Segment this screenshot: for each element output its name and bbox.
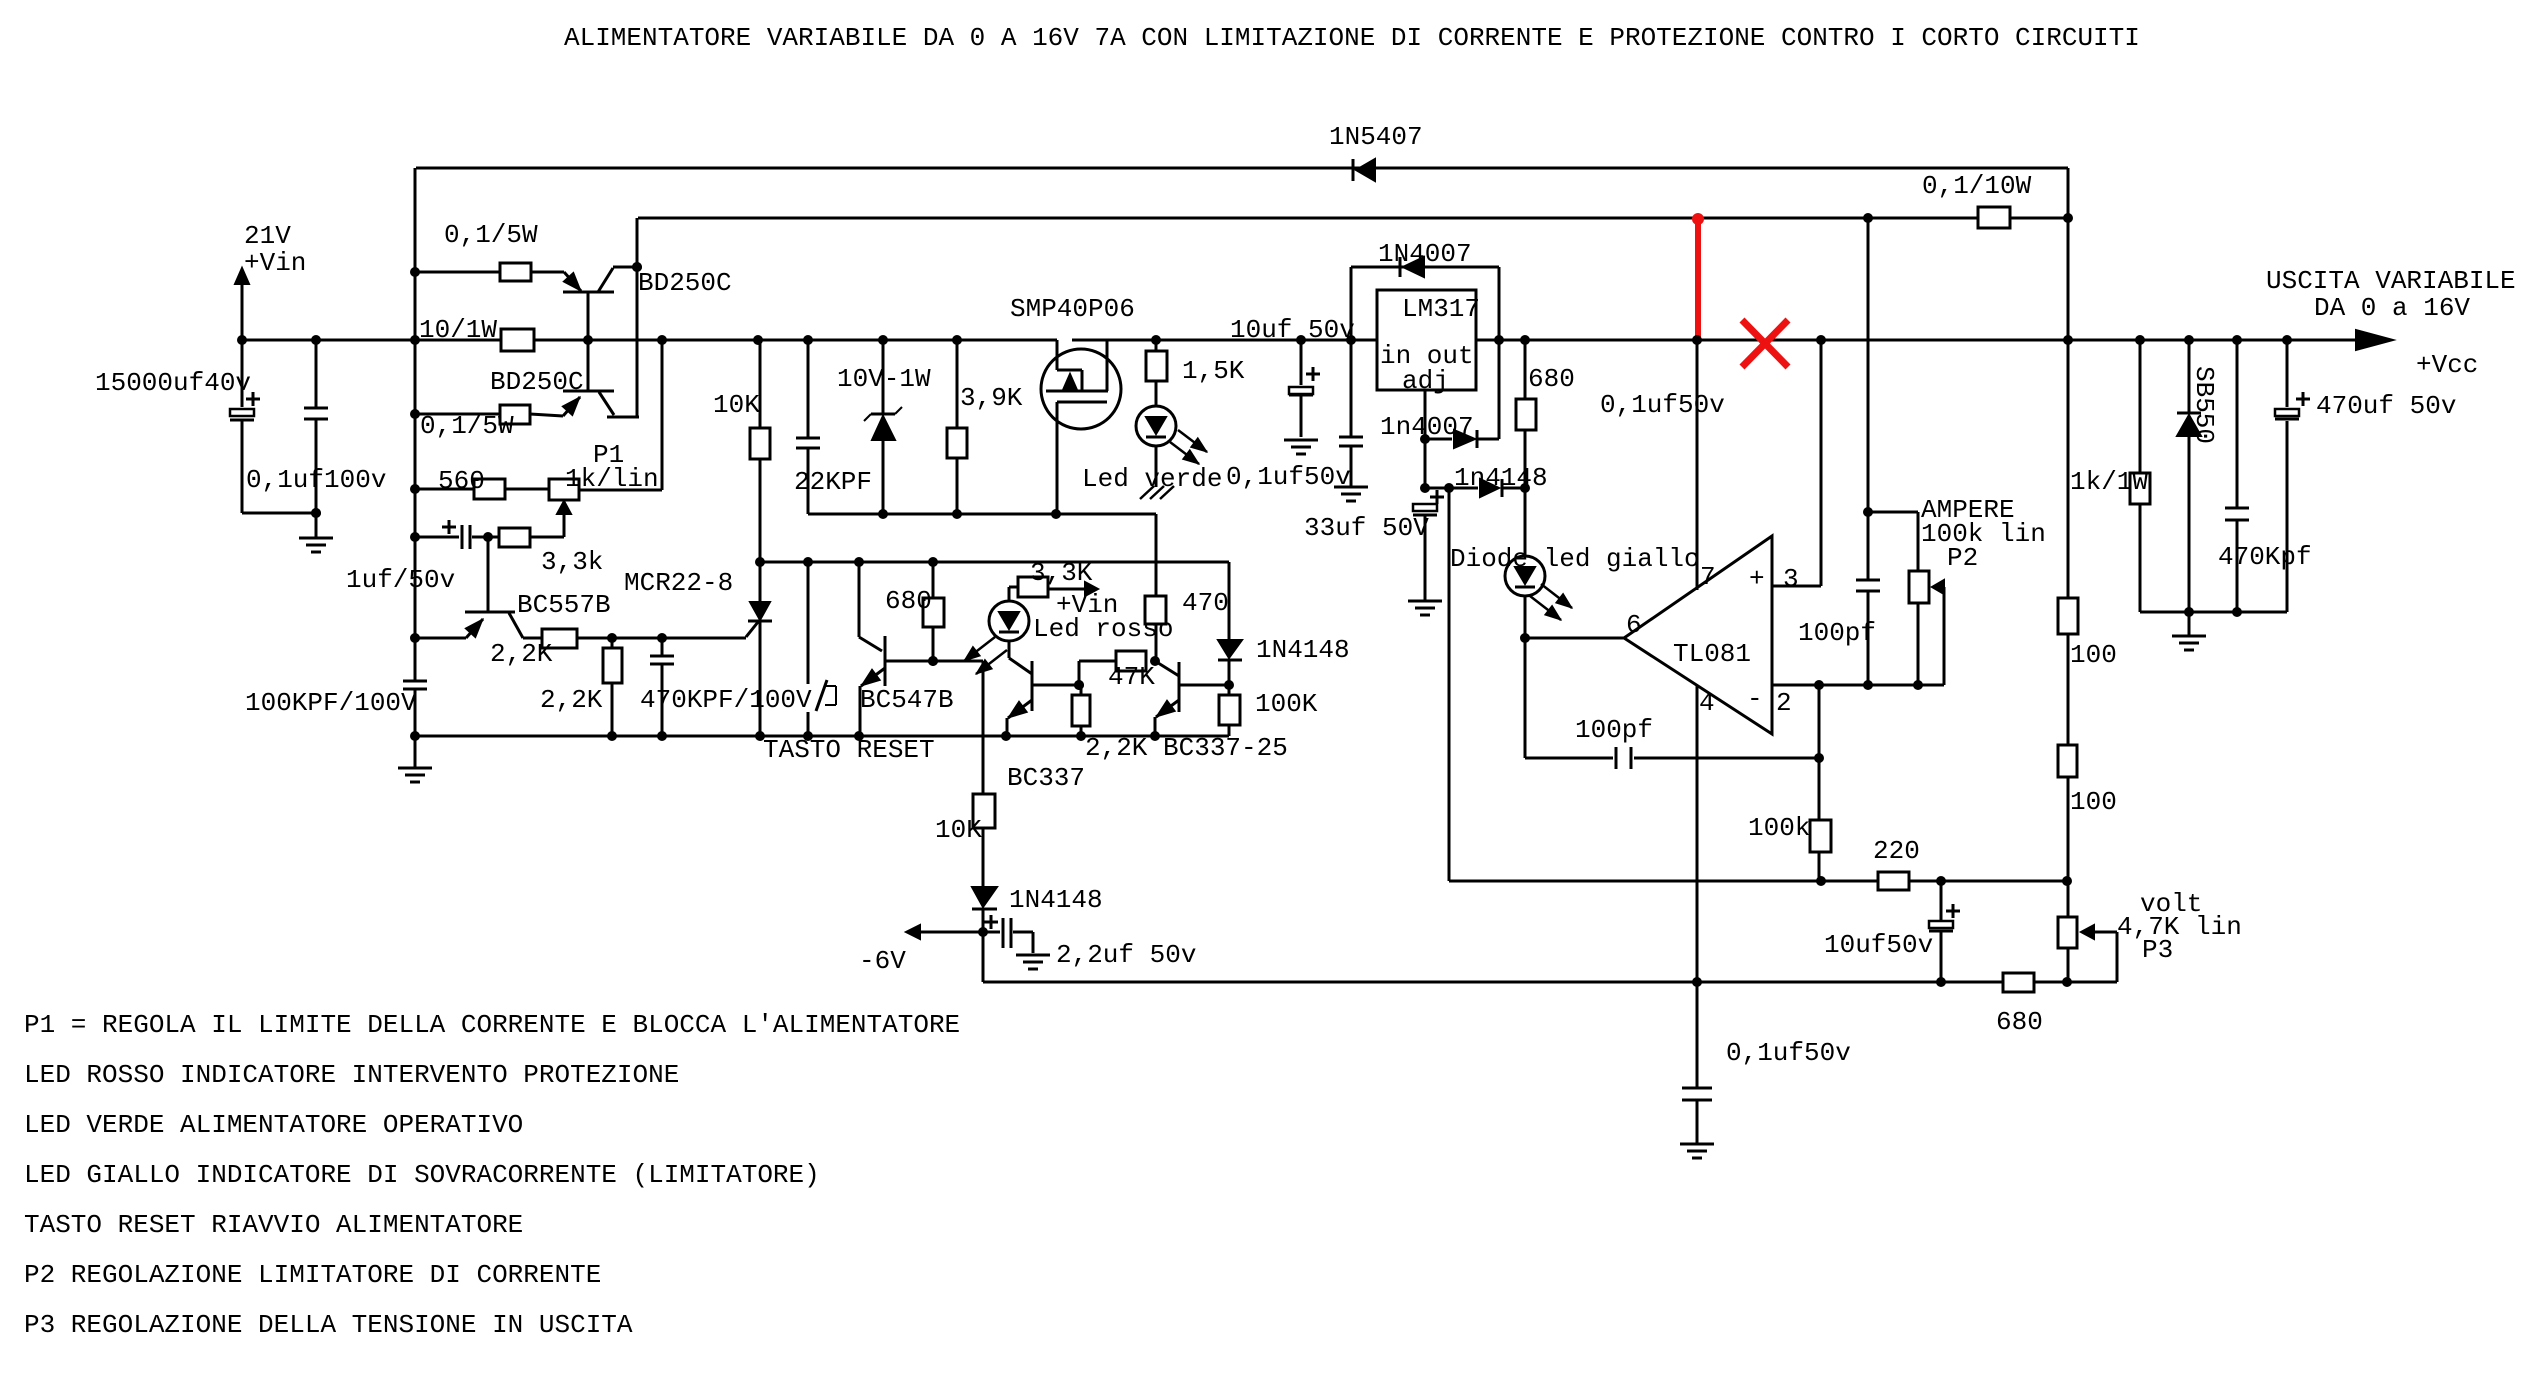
- node collector top: [632, 262, 642, 272]
- svg-text:0,1uf50v: 0,1uf50v: [1600, 390, 1725, 420]
- thyristor MCR22-8: [748, 602, 772, 736]
- wire collector 2,2K row: [523, 622, 758, 638]
- wire drain line: [808, 514, 1156, 562]
- wire collector bus x637: [636, 218, 639, 417]
- diode 1N4148 base: [1218, 640, 1242, 660]
- wire 0,1uf100v branch: [315, 340, 318, 537]
- wire 470uf branch: [2286, 340, 2289, 612]
- label 47K: [1108, 662, 1155, 692]
- resistor 220: [1878, 872, 1909, 890]
- output arrow: [2356, 330, 2393, 350]
- diode 1n4007 adj: [1425, 430, 1499, 448]
- led rosso emission arrows: [964, 637, 1007, 674]
- svg-text:100K: 100K: [1255, 689, 1318, 719]
- label 1N4007: [1378, 239, 1472, 269]
- resistor 0,1/5W top: [500, 263, 531, 281]
- label 100KPF/100V: [245, 688, 417, 718]
- wire 560 row: [415, 340, 662, 490]
- label 2,2K h: [490, 639, 553, 669]
- svg-text:680: 680: [885, 586, 932, 616]
- wire 470 branch: [1155, 562, 1158, 661]
- capacitor 22KPF: [796, 438, 820, 448]
- ground 10uf: [1284, 440, 1318, 454]
- svg-text:1N4148: 1N4148: [1256, 635, 1350, 665]
- svg-text:100k lin: 100k lin: [1921, 519, 2046, 549]
- wire 100pf2 line: [1525, 685, 1819, 758]
- svg-text:SB550: SB550: [2189, 366, 2219, 444]
- svg-text:1k/lin: 1k/lin: [565, 464, 659, 494]
- svg-text:100k: 100k: [1748, 813, 1810, 843]
- svg-text:Led verde: Led verde: [1082, 464, 1222, 494]
- svg-text:P2: P2: [1947, 543, 1978, 573]
- svg-text:MCR22-8: MCR22-8: [624, 568, 733, 598]
- diode SB550: [2177, 413, 2201, 436]
- svg-text:470: 470: [1182, 588, 1229, 618]
- svg-text:+Vin: +Vin: [244, 248, 306, 278]
- resistor 47K: [1116, 651, 1146, 671]
- capacitor 470KPF/100V: [650, 656, 674, 664]
- wire main +V bus right: [1072, 339, 2357, 342]
- label +Vcc: [2416, 350, 2478, 380]
- svg-text:LED ROSSO INDICATORE INTERVENT: LED ROSSO INDICATORE INTERVENTO PROTEZIO…: [24, 1060, 679, 1090]
- resistor 560: [474, 479, 505, 499]
- resistor 680 2: [1516, 399, 1536, 430]
- svg-text:1N4007: 1N4007: [1378, 239, 1472, 269]
- wire gate rail 562: [760, 561, 1229, 564]
- legend line 3: [24, 1110, 523, 1140]
- transistor Q1 BD250C upper: [563, 267, 637, 340]
- wire top rail 1: [416, 167, 2068, 170]
- wire 10uf50v branch: [1940, 881, 1943, 982]
- wire x1449 feedback: [1449, 488, 2067, 881]
- label Led verde: [1082, 464, 1222, 494]
- label 470: [1182, 588, 1229, 618]
- label 470uf 50v: [2316, 391, 2456, 421]
- label 2,2K BC337-25: [1085, 733, 1288, 763]
- svg-text:6: 6: [1626, 610, 1642, 640]
- label 2,2K v: [540, 685, 603, 715]
- node 100pf2: [1814, 753, 1824, 763]
- potentiometer P1 1k/lin: [549, 479, 579, 537]
- label 10K 2: [935, 815, 982, 845]
- wire x983 down: [982, 661, 985, 982]
- label 0,1/10W: [1922, 171, 2032, 201]
- svg-text:470uf 50v: 470uf 50v: [2316, 391, 2456, 421]
- label 1k/lin: [565, 464, 659, 494]
- transistor Q2 BD250C lower: [562, 340, 639, 417]
- label BD250C lower: [490, 367, 584, 397]
- label 0,1uf100v: [246, 465, 386, 495]
- wire top rail 2: [638, 217, 2068, 220]
- label P2: [1947, 543, 1978, 573]
- label 21V: [244, 221, 291, 251]
- potentiometer P2 100k lin: [1909, 571, 1944, 685]
- wire 10K branch: [759, 340, 762, 602]
- node led giallo junctions: [1520, 483, 1530, 643]
- svg-text:DA 0 a 16V: DA 0 a 16V: [2314, 293, 2470, 323]
- ground main: [398, 736, 432, 782]
- svg-text:10K: 10K: [935, 815, 982, 845]
- svg-text:10uf 50v: 10uf 50v: [1230, 315, 1355, 345]
- svg-text:1N5407: 1N5407: [1329, 122, 1423, 152]
- resistor 0,1/10W: [1978, 207, 2010, 228]
- wire P2 top: [1868, 512, 1918, 571]
- resistor 10K 2: [973, 794, 995, 828]
- resistor 3,3K to Vin: [1018, 577, 1048, 597]
- label pin minus: [1747, 684, 1763, 714]
- svg-text:47K: 47K: [1108, 662, 1155, 692]
- ground left: [299, 538, 333, 552]
- label 1N4148 base: [1256, 635, 1350, 665]
- ground right: [2172, 612, 2206, 650]
- node 2,2K top: [607, 633, 617, 643]
- label 1N5407: [1329, 122, 1423, 152]
- title text: [564, 23, 2140, 53]
- label 100k: [1748, 813, 1810, 843]
- node +Vin arrow: [235, 268, 249, 340]
- label MCR22-8: [624, 568, 733, 598]
- wire ground rail: [415, 735, 1229, 738]
- label 680 3: [1996, 1007, 2043, 1037]
- ground led verde: [1140, 486, 1174, 499]
- node junction 3,3k: [483, 532, 493, 542]
- label TASTO RESET: [763, 735, 935, 765]
- label 10V-1W: [837, 364, 931, 394]
- svg-text:1k/1W: 1k/1W: [2070, 467, 2148, 497]
- junction dots on gate rail: [755, 557, 938, 567]
- label BC557B: [517, 590, 611, 620]
- svg-text:Diode led giallo: Diode led giallo: [1450, 544, 1700, 574]
- wire 100pf1 branch: [1867, 218, 1870, 685]
- svg-text:0,1/5W: 0,1/5W: [444, 220, 538, 250]
- capacitor 33uf 50V: [1408, 490, 1444, 615]
- label 470KPF/100V: [640, 685, 812, 715]
- label 100pf 1: [1798, 618, 1876, 648]
- svg-text:680: 680: [1528, 364, 1575, 394]
- resistor 100 b: [2058, 745, 2077, 777]
- svg-text:3,9K: 3,9K: [960, 383, 1023, 413]
- label BD250C upper: [638, 268, 732, 298]
- wire 100k branch: [1818, 758, 1821, 881]
- regulator U2 LM317: [1377, 290, 1476, 390]
- capacitor 100pf 2: [1616, 747, 1631, 769]
- capacitor 15000uf40v: [230, 392, 260, 420]
- resistor 10K: [750, 428, 770, 459]
- resistor 3,9K: [947, 428, 967, 458]
- svg-text:LED GIALLO INDICATORE DI SOVRA: LED GIALLO INDICATORE DI SOVRACORRENTE (…: [24, 1160, 820, 1190]
- wire 1uf row: [415, 536, 564, 539]
- svg-text:P1 = REGOLA IL LIMITE DELLA CO: P1 = REGOLA IL LIMITE DELLA CORRENTE E B…: [24, 1010, 960, 1040]
- label adj: [1402, 366, 1449, 396]
- node adj junctions: [1420, 434, 1454, 493]
- svg-text:3: 3: [1783, 564, 1799, 594]
- legend line 2: [24, 1060, 679, 1090]
- wire pin7 supply: [1696, 340, 1699, 590]
- node 470KPF top: [657, 633, 667, 643]
- resistor 3,3k: [499, 528, 530, 547]
- label 2,2uf 50v: [1056, 940, 1196, 970]
- svg-text:TL081: TL081: [1673, 639, 1751, 669]
- node collector BC547B: [928, 656, 938, 666]
- label 0,1uf50v LM317: [1226, 462, 1351, 492]
- capacitor 470uf 50v: [2275, 392, 2310, 419]
- label P1: [593, 440, 624, 470]
- label Diode led giallo: [1450, 544, 1700, 574]
- svg-text:USCITA VARIABILE: USCITA VARIABILE: [2266, 266, 2516, 296]
- node -6V junction: [978, 927, 988, 937]
- svg-text:100pf: 100pf: [1798, 618, 1876, 648]
- label in out: [1380, 341, 1474, 371]
- wire pin2 input: [1772, 684, 1944, 687]
- resistor 1k/1W: [2130, 473, 2150, 504]
- label 100 b: [2070, 787, 2117, 817]
- svg-text:4: 4: [1699, 688, 1715, 718]
- transistor Q3 BC557B: [415, 537, 523, 638]
- svg-text:10uf50v: 10uf50v: [1824, 930, 1933, 960]
- wire led anode: [1009, 586, 1018, 589]
- resistor 2,2K under base: [1072, 685, 1090, 736]
- resistor 2,2K horizontal: [542, 629, 577, 648]
- label pin7: [1700, 562, 1716, 592]
- junction dots on ground rail: [410, 731, 1160, 741]
- svg-text:33uf 50V: 33uf 50V: [1304, 513, 1429, 543]
- svg-text:LED VERDE ALIMENTATORE OPERATI: LED VERDE ALIMENTATORE OPERATIVO: [24, 1110, 523, 1140]
- svg-text:1uf/50v: 1uf/50v: [346, 565, 455, 595]
- label 100 a: [2070, 640, 2117, 670]
- label 470Kpf: [2218, 542, 2312, 572]
- label pin6: [1626, 610, 1642, 640]
- wire 2,2K vert: [611, 638, 614, 736]
- label 15000uf40v: [95, 368, 251, 398]
- capacitor 100pf 1: [1856, 580, 1880, 591]
- wire SB550 branch: [2188, 340, 2191, 612]
- legend line 5: [24, 1210, 523, 1240]
- wire 1,5K branch: [1155, 340, 1158, 487]
- svg-text:0,1uf100v: 0,1uf100v: [246, 465, 386, 495]
- capacitor 0,1uf50v LM317: [1334, 340, 1368, 501]
- red mark X: [1742, 320, 1788, 367]
- svg-text:470KPF/100V: 470KPF/100V: [640, 685, 812, 715]
- svg-text:0,1uf50v: 0,1uf50v: [1726, 1038, 1851, 1068]
- legend line 4: [24, 1160, 820, 1190]
- led verde emission arrows: [1170, 430, 1207, 464]
- legend line 6: [24, 1260, 601, 1290]
- svg-text:ALIMENTATORE VARIABILE DA 0 A: ALIMENTATORE VARIABILE DA 0 A 16V 7A CON…: [564, 23, 2140, 53]
- label 0,1/5W top: [444, 220, 538, 250]
- wire x2068 vertical: [2067, 168, 2070, 982]
- label BC337: [1007, 763, 1085, 793]
- led Diode led giallo: [1505, 556, 1545, 596]
- resistor 0,1/5W bottom: [500, 405, 530, 424]
- svg-text:TASTO RESET: TASTO RESET: [763, 735, 935, 765]
- label 680 2: [1528, 364, 1575, 394]
- label 560: [438, 466, 485, 496]
- led Led rosso: [989, 587, 1029, 658]
- wire 680 branch: [933, 562, 983, 661]
- label 3,3k: [541, 547, 603, 577]
- svg-text:22KPF: 22KPF: [794, 467, 872, 497]
- label 4,7K lin: [2117, 912, 2242, 942]
- svg-text:2,2K: 2,2K: [490, 639, 553, 669]
- label pin4: [1699, 688, 1715, 718]
- led giallo emission arrows: [1530, 584, 1572, 620]
- wire 22KPF branch: [807, 340, 810, 514]
- diode 1N5407: [1353, 159, 1375, 181]
- label 0,1uf50v bottom: [1726, 1038, 1851, 1068]
- switch TASTO RESET: [808, 562, 836, 736]
- label 100pf 2: [1575, 715, 1653, 745]
- label 100k lin: [1921, 519, 2046, 549]
- diode 1N4148 down: [972, 887, 997, 909]
- resistor 1,5K: [1146, 351, 1167, 381]
- svg-text:2,2uf 50v: 2,2uf 50v: [1056, 940, 1196, 970]
- svg-text:15000uf40v: 15000uf40v: [95, 368, 251, 398]
- svg-text:1N4148: 1N4148: [1009, 885, 1103, 915]
- label 1uf/50v: [346, 565, 455, 595]
- wire x415 vertical: [414, 168, 417, 736]
- label 1n4007: [1380, 412, 1474, 442]
- label 10K: [713, 390, 760, 420]
- svg-text:3,3k: 3,3k: [541, 547, 603, 577]
- wire -6V arrow: [906, 925, 983, 939]
- label 0,1/5W bottom: [420, 411, 514, 441]
- wire 470Kpf branch: [2236, 340, 2239, 612]
- label TL081: [1673, 639, 1751, 669]
- red mark vertical: [1692, 213, 1704, 341]
- label 22KPF: [794, 467, 872, 497]
- label 10/1W: [419, 315, 497, 345]
- svg-text:100KPF/100V: 100KPF/100V: [245, 688, 417, 718]
- wire 3,9K branch: [956, 340, 959, 514]
- node base BC337: [1074, 680, 1084, 690]
- capacitor 2,2uf 50v: [983, 915, 1050, 969]
- resistor 680 left: [923, 598, 944, 627]
- wire pin3 input: [1772, 340, 1821, 586]
- label P3: [2142, 935, 2173, 965]
- svg-text:0,1uf50v: 0,1uf50v: [1226, 462, 1351, 492]
- svg-text:680: 680: [1996, 1007, 2043, 1037]
- label +Vin 2: [1056, 590, 1118, 620]
- wire P2 bottom: [1917, 603, 1920, 685]
- label Led rosso: [1033, 614, 1173, 644]
- svg-text:+: +: [1749, 564, 1765, 594]
- wire pin4 supply: [1696, 686, 1699, 982]
- svg-text:BD250C: BD250C: [638, 268, 732, 298]
- capacitor 10uf50v 2: [1929, 904, 1960, 931]
- svg-text:0,1/10W: 0,1/10W: [1922, 171, 2032, 201]
- label pin plus: [1749, 564, 1765, 594]
- wire 10uf branch: [1300, 340, 1303, 437]
- label volt: [2140, 889, 2202, 919]
- transistor Q5 BC337: [1007, 658, 1079, 736]
- resistor 2,2K vertical: [603, 648, 622, 683]
- svg-text:470Kpf: 470Kpf: [2218, 542, 2312, 572]
- wire 680 branch 2: [1524, 340, 1527, 758]
- label 3,9K: [960, 383, 1023, 413]
- capacitor 100KPF/100V: [403, 681, 427, 689]
- label SB550: [2189, 366, 2219, 444]
- svg-text:100: 100: [2070, 640, 2117, 670]
- svg-text:100: 100: [2070, 787, 2117, 817]
- label 33uf 50V: [1304, 513, 1429, 543]
- label pin3: [1783, 564, 1799, 594]
- svg-text:10K: 10K: [713, 390, 760, 420]
- wire adj stem: [1424, 390, 1427, 488]
- svg-text:BC547B: BC547B: [860, 685, 954, 715]
- zener 10V-1W: [864, 407, 902, 440]
- svg-text:SMP40P06: SMP40P06: [1010, 294, 1135, 324]
- label 3,3K 2: [1030, 558, 1093, 588]
- svg-text:P3 REGOLAZIONE DELLA TENSIONE: P3 REGOLAZIONE DELLA TENSIONE IN USCITA: [24, 1310, 633, 1340]
- svg-text:3,3K: 3,3K: [1030, 558, 1093, 588]
- svg-text:0,1/5W: 0,1/5W: [420, 411, 514, 441]
- label 10uf50v 2: [1824, 930, 1933, 960]
- mosfet SMP40P06: [1041, 340, 1121, 514]
- diode 1N4007 top: [1400, 257, 1424, 277]
- label +Vin: [244, 248, 306, 278]
- svg-text:BC337: BC337: [1007, 763, 1085, 793]
- svg-text:7: 7: [1700, 562, 1716, 592]
- svg-text:21V: 21V: [244, 221, 291, 251]
- svg-text:1,5K: 1,5K: [1182, 356, 1245, 386]
- wire zener branch: [882, 340, 885, 514]
- label 10uf 50v: [1230, 315, 1355, 345]
- potentiometer P3 4,7K lin: [2058, 917, 2117, 982]
- svg-text:4,7K lin: 4,7K lin: [2117, 912, 2242, 942]
- wire main +V bus left: [242, 339, 1057, 342]
- svg-text:BD250C: BD250C: [490, 367, 584, 397]
- label 1n4148: [1454, 463, 1548, 493]
- label 1N4148 d: [1009, 885, 1103, 915]
- svg-text:-: -: [1747, 684, 1763, 714]
- node junction: [311, 508, 321, 518]
- transistor Q6 BC337-25: [1155, 661, 1229, 736]
- junction dots on bus: [237, 335, 2292, 345]
- capacitor 0,1uf100v: [304, 408, 328, 419]
- label LM317: [1402, 294, 1480, 324]
- label 1,5K: [1182, 356, 1245, 386]
- capacitor 10uf 50v: [1289, 367, 1320, 395]
- svg-text:P3: P3: [2142, 935, 2173, 965]
- wire 15000uf branch: [242, 340, 316, 513]
- svg-text:+Vcc: +Vcc: [2416, 350, 2478, 380]
- resistor 10/1W: [501, 329, 534, 351]
- resistor 100k: [1810, 820, 1831, 852]
- resistor 680 3: [2003, 973, 2034, 992]
- label pin2: [1776, 688, 1792, 718]
- wire emitter bottom: [415, 414, 563, 416]
- wire bottom right rail: [2140, 611, 2287, 614]
- wire 470KPF vert: [661, 638, 664, 736]
- svg-text:LM317: LM317: [1402, 294, 1480, 324]
- label DA 0 a 16V: [2314, 293, 2470, 323]
- capacitor 470Kpf: [2225, 508, 2249, 520]
- label 220: [1873, 836, 1920, 866]
- label 680 left: [885, 586, 932, 616]
- svg-text:10V-1W: 10V-1W: [837, 364, 931, 394]
- transistor Q4 BC547B: [859, 562, 933, 736]
- resistor 470: [1145, 596, 1166, 624]
- svg-text:10/1W: 10/1W: [419, 315, 497, 345]
- label BC547B: [860, 685, 954, 715]
- wire emitter top: [415, 271, 564, 274]
- label -6V: [859, 946, 906, 976]
- capacitor 0,1uf50v bottom: [1680, 982, 1714, 1158]
- label 100K: [1255, 689, 1318, 719]
- diode 1n4148 adj: [1425, 479, 1525, 497]
- op-amp U1 TL081: [1524, 536, 1772, 734]
- svg-text:P2 REGOLAZIONE LIMITATORE DI C: P2 REGOLAZIONE LIMITATORE DI CORRENTE: [24, 1260, 601, 1290]
